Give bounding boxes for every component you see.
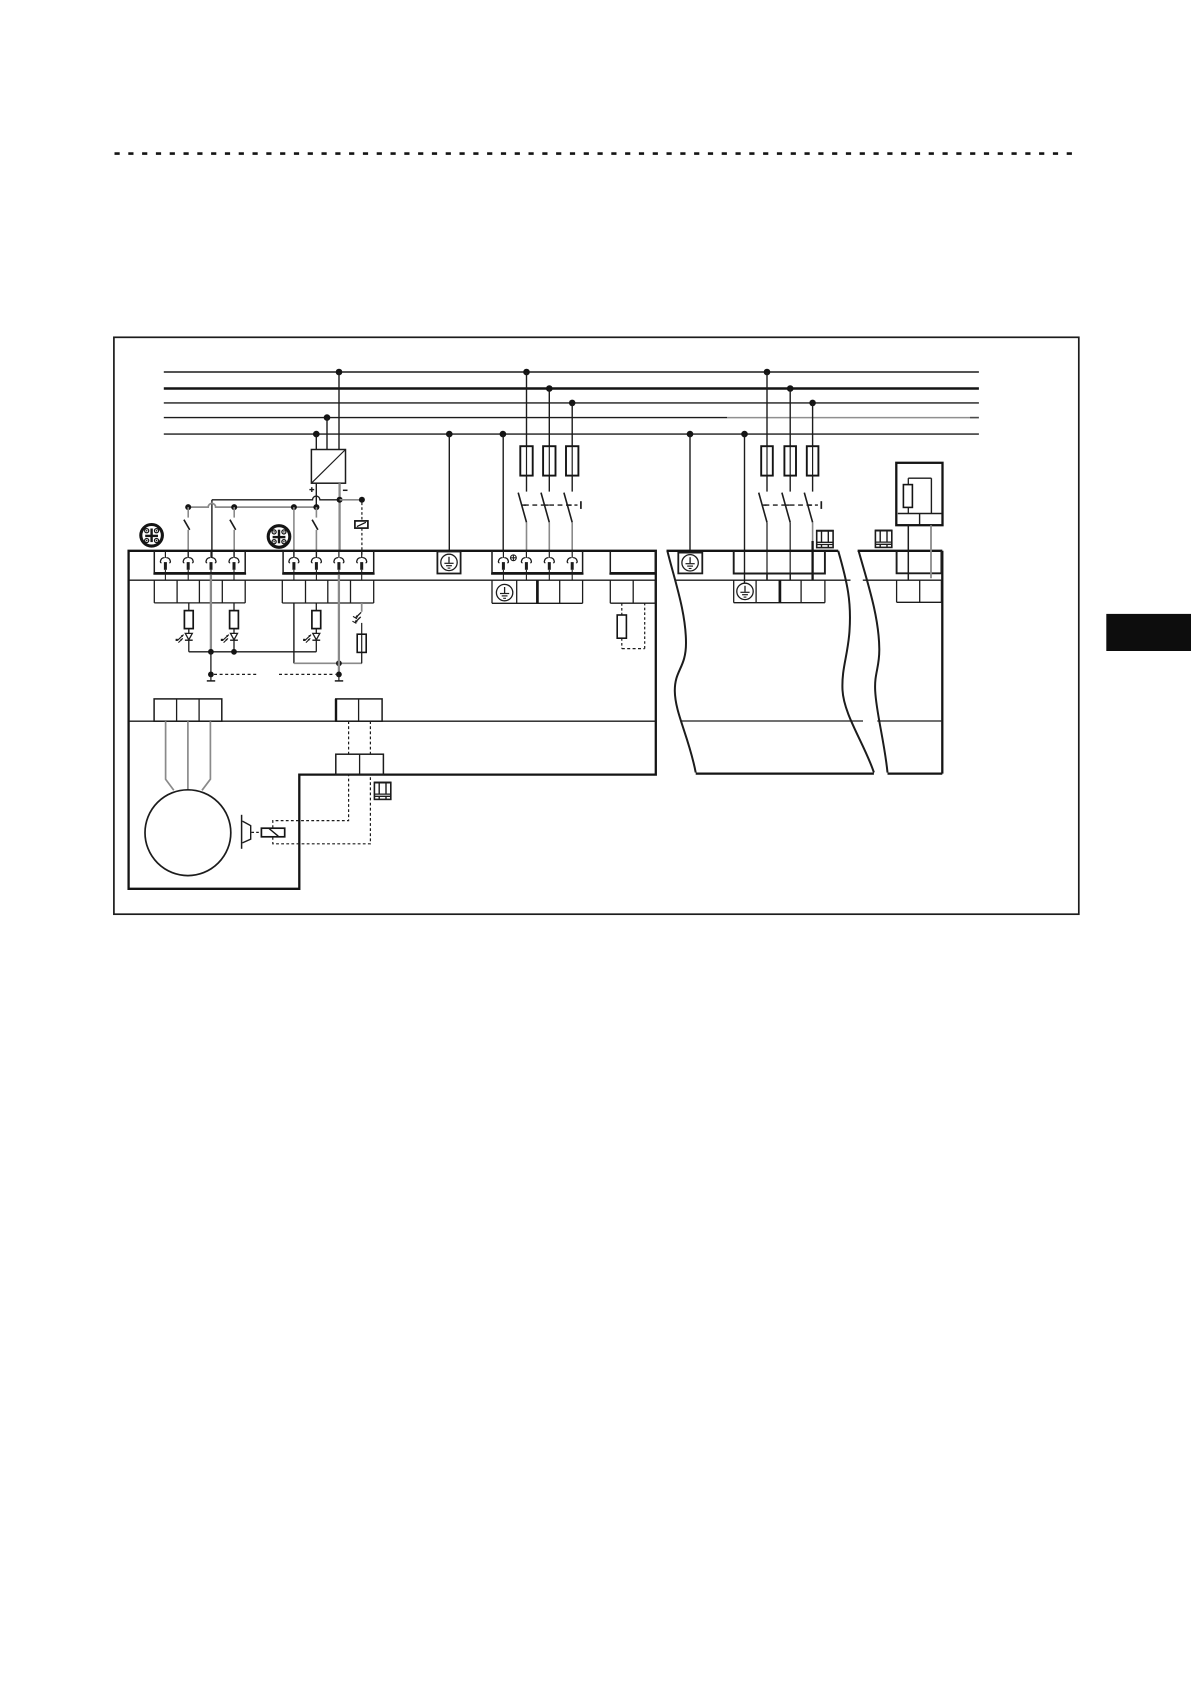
indoor unit 2 top edge <box>858 550 943 552</box>
thyristor V1 <box>176 633 193 642</box>
wire PE bus to group3 terminal 1 <box>502 434 504 551</box>
horizontal dashed rule <box>115 152 1078 155</box>
breaker Q1 pole 1 <box>518 476 526 552</box>
black index tab on right page edge <box>1106 614 1191 651</box>
indoor unit 1 terminal box <box>734 551 825 574</box>
fuse F7 <box>357 623 366 663</box>
cable gland C <box>374 782 391 799</box>
node bus under group 1 <box>189 651 316 653</box>
motor wire U <box>166 721 174 790</box>
breaker Q1 handle bar <box>580 501 582 509</box>
wire PE to rectifier <box>315 434 317 449</box>
switch contact S2 <box>230 507 236 558</box>
numbered cells under group 2 <box>282 580 373 603</box>
breaker Q2 pole 2 <box>782 476 790 581</box>
supply bus line L3 <box>164 402 979 404</box>
motor wire W <box>202 721 210 790</box>
option box wire gray <box>930 525 932 578</box>
indoor unit 1 terminal row line <box>676 579 851 581</box>
terminal 1-1 <box>160 552 170 581</box>
fuse F4 <box>761 372 773 476</box>
fan motor connector X2 <box>154 699 222 721</box>
outdoor unit inner divider line <box>129 720 656 722</box>
resistor R2 <box>230 603 239 633</box>
breaker Q2 handle bar <box>820 501 822 509</box>
thick cell divider group 3 <box>536 580 539 603</box>
resistor R4 inside option box <box>903 485 912 508</box>
indoor unit 1 left break edge <box>667 551 695 773</box>
gray wire terminal 2-3 to label node B <box>279 575 343 681</box>
terminal 3-3 <box>544 552 554 581</box>
breaker Q2 coupling dashes <box>765 504 818 506</box>
fan symbol M2 <box>268 526 290 548</box>
outdoor unit outline <box>129 551 656 889</box>
supply bus line PE <box>164 433 979 435</box>
wires through indoor unit 1 terminal box <box>766 574 768 581</box>
stub to label node A <box>207 652 258 681</box>
gray wire to terminal 2-1 <box>293 507 295 558</box>
indoor unit 1 bottom edge <box>696 772 874 774</box>
wire V3 to node bus <box>315 640 317 652</box>
fuse F3 <box>566 403 578 476</box>
wire V1 to node bus <box>188 640 190 652</box>
terminating resistor dashed loop <box>617 603 645 648</box>
indoor unit 2 right edge <box>941 551 943 774</box>
junction dots on node bus <box>208 649 214 655</box>
terminal block group 3 box <box>492 551 583 573</box>
terminal 1-4 <box>229 552 239 581</box>
indoor unit 1 cells row <box>734 580 825 603</box>
node dot on minus wire <box>337 497 343 503</box>
indoor unit 2 left break edge <box>859 551 888 773</box>
motor wire V <box>187 721 189 790</box>
option box wire black <box>907 525 909 580</box>
numbered cells under group 3 <box>492 580 583 603</box>
thyristor V3 <box>303 633 320 642</box>
terminal 1-3 <box>206 552 216 581</box>
fan motor M <box>145 790 231 876</box>
earth terminal box indoor unit 1 <box>678 553 702 574</box>
dashed links connector X3 to X4 <box>348 721 350 754</box>
terminal 3-2 <box>521 552 531 581</box>
black node wire with hop over plus wire <box>212 496 340 500</box>
terminal block X1M group 2 box <box>283 551 374 573</box>
junction dots on buses <box>313 369 816 438</box>
resistor R3 <box>312 603 321 633</box>
terminal 2-4 <box>357 552 367 581</box>
junction dot <box>336 660 342 666</box>
terminal 1-2 <box>183 552 193 581</box>
breaker Q2 pole 3 <box>804 476 812 581</box>
terminal 2-1 <box>289 552 299 581</box>
minus label <box>343 489 348 491</box>
indoor unit 2 bottom edge <box>888 772 943 774</box>
sound sensor / thermistor body <box>242 815 251 849</box>
resistor R1 <box>184 603 193 633</box>
diagram frame <box>114 337 1079 914</box>
earth terminal box left unit <box>437 552 460 574</box>
supply bus line L1 <box>164 371 979 373</box>
heater element K2 <box>261 828 284 837</box>
switch contact S1 <box>184 507 190 558</box>
fuse F1 <box>520 372 532 476</box>
breaker Q1 coupling dashes <box>524 504 578 506</box>
indoor unit 1 right break edge <box>838 551 874 773</box>
thick cell divider indoor unit 1 <box>779 580 782 603</box>
gray wire terminal 1-3 down <box>210 575 212 652</box>
earth screw mark <box>511 555 517 561</box>
dashed drop to relay coil <box>361 503 363 521</box>
gray link bus under group 2 <box>294 662 362 664</box>
rectifier / converter U1 <box>311 450 345 484</box>
indoor unit 2 divider line <box>877 720 942 722</box>
numbered cells under group 1 <box>154 580 245 603</box>
supply bus line L2 (thick) <box>164 387 979 389</box>
supply bus line N (left black, right gray) <box>164 417 727 419</box>
black wire down to terminal 1-3 <box>211 500 213 558</box>
switch contact S3 <box>312 507 318 558</box>
fan symbol M1 <box>141 525 163 547</box>
earth wire to left unit earth terminal <box>448 434 450 551</box>
breaker Q1 pole 3 <box>564 476 572 552</box>
fuse F2 <box>543 389 555 476</box>
earth wire to middle unit earth terminal <box>689 434 691 552</box>
earth symbol left unit <box>441 554 457 570</box>
thyristor V2 <box>221 633 238 642</box>
wire terminal 2-1 down <box>293 603 295 663</box>
plus label <box>309 487 314 492</box>
fuse F6 <box>807 403 819 476</box>
communication terminal box <box>610 551 655 573</box>
option box lower cells <box>898 507 942 524</box>
indoor unit 2 terminal row line <box>863 579 942 581</box>
indoor unit 1 top edge <box>667 550 839 552</box>
earth circle in cell 3-1 <box>496 584 512 600</box>
cable gland B <box>875 530 892 547</box>
earth symbol indoor unit 1 <box>682 555 698 571</box>
sensor connector X3 <box>336 699 382 721</box>
wire L1 to rectifier <box>338 372 340 450</box>
varistor arrows <box>352 603 361 623</box>
dashed lead to element <box>251 831 261 833</box>
communication cells <box>610 580 655 603</box>
earth circle in indoor unit 1 cell <box>737 583 753 599</box>
relay coil K1 <box>355 521 368 528</box>
dashed wire relay to terminal 2-4 <box>361 528 363 558</box>
terminal 2-2 <box>311 552 321 581</box>
dashed sensor wiring run upper <box>273 775 349 828</box>
terminal 3-1 <box>498 552 508 581</box>
cable gland A <box>816 531 833 548</box>
indoor unit 2 terminal box <box>897 551 942 573</box>
terminal 2-3 <box>334 552 344 581</box>
gray control bus with hop over black wire <box>188 503 316 507</box>
terminal block X1M group 1 box <box>154 551 245 573</box>
outdoor unit terminal row line <box>129 579 656 581</box>
indoor unit 2 cells row <box>897 580 942 602</box>
wire V2 to node bus <box>233 640 235 652</box>
DC plus wire from rectifier <box>315 483 317 507</box>
dashed sensor wiring run lower <box>273 775 371 844</box>
DC minus wire from rectifier (gray thick) <box>338 483 340 551</box>
wire N to rectifier <box>326 418 328 450</box>
fuse F5 <box>784 389 796 476</box>
terminal 3-4 <box>567 552 577 581</box>
breaker Q2 pole 1 <box>759 476 767 581</box>
breaker Q1 pole 2 <box>541 476 549 552</box>
sensor connector X4 <box>336 754 384 774</box>
wire PE bus to middle unit terminal 1 <box>744 434 746 583</box>
gray link to relay drop <box>340 499 362 501</box>
option adapter box U2 <box>896 463 942 525</box>
dots on gray control bus <box>185 504 319 510</box>
indoor unit 1 divider line <box>682 720 864 722</box>
node dot at relay drop <box>359 497 365 503</box>
